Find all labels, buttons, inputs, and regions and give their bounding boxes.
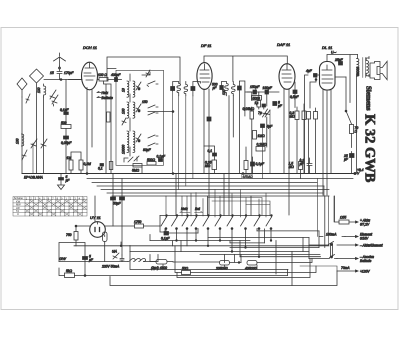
IFT2 cap left xyxy=(220,86,224,90)
capacitor C-ant 170pF xyxy=(57,66,62,80)
tube DCH11 xyxy=(82,62,98,90)
wire A2 branch xyxy=(32,143,34,173)
trimmer detector xyxy=(263,109,268,117)
trimmer arrows C-var xyxy=(50,90,58,104)
vertical x292 xyxy=(291,252,293,286)
antenna A1 (small) xyxy=(17,78,27,97)
resistor 1.2k bottom xyxy=(133,164,142,168)
svg-text:Siemens: Siemens xyxy=(365,86,373,111)
resistor v 0.15M xyxy=(250,111,254,119)
svg-text:0,1µF: 0,1µF xyxy=(157,155,166,159)
coil L1 100 xyxy=(44,84,46,97)
capacitor on DF11 cathode xyxy=(207,117,211,121)
bus y186 xyxy=(97,185,324,187)
svg-text:100: 100 xyxy=(16,138,20,144)
cap 0.1uF under switch xyxy=(164,232,169,236)
node dot xyxy=(315,79,317,81)
wire 120v xyxy=(300,266,337,271)
svg-text:150: 150 xyxy=(142,100,148,104)
resistor 1.5M right xyxy=(299,162,303,170)
wire top horizontal y79.5 xyxy=(44,79,82,81)
wire DF11 top link xyxy=(204,56,287,82)
IFT2 coil primary xyxy=(222,82,229,96)
coil L2 100 lower-left xyxy=(22,134,24,146)
vertical x172.5 xyxy=(172,241,174,246)
IFT1 coil primary xyxy=(173,82,181,96)
svg-text:0,1: 0,1 xyxy=(208,149,213,153)
capacitor 0.1uF left column black xyxy=(64,112,69,115)
wires resistor drops xyxy=(71,152,81,174)
svg-text:160µF: 160µF xyxy=(263,86,273,90)
coil pair L band xyxy=(127,131,135,153)
wires right of DAF11 xyxy=(294,82,296,108)
tube DAF11 xyxy=(279,64,295,90)
svg-text:UY 11: UY 11 xyxy=(90,215,101,220)
cap 25uF blob low xyxy=(350,154,355,158)
capacitor 400pF black xyxy=(115,78,118,82)
resistor on x111 lower xyxy=(109,162,113,170)
tube DL11 xyxy=(320,62,336,91)
svg-text:150µF: 150µF xyxy=(250,85,260,89)
vertical x257 xyxy=(256,229,258,231)
wire down xyxy=(113,200,122,255)
svg-text:1M: 1M xyxy=(67,156,72,160)
vertical x130 xyxy=(129,246,131,252)
wire bottom long xyxy=(59,268,288,276)
svg-text:5kΩ: 5kΩ xyxy=(66,269,72,273)
wire to coil box xyxy=(118,79,122,81)
table X marks row6 xyxy=(29,213,82,216)
resistor v mid xyxy=(244,161,248,170)
resistor on x111 xyxy=(107,112,111,122)
svg-text:¼A: ¼A xyxy=(112,250,118,254)
resistor 0.2M vertical xyxy=(79,160,83,170)
svg-text:DAF 11: DAF 11 xyxy=(277,42,290,47)
heater arrows Heiz/Batterie xyxy=(97,92,101,98)
svg-text:DCH 11: DCH 11 xyxy=(83,45,97,50)
svg-text:0,05µF: 0,05µF xyxy=(61,141,72,145)
transformer secondary xyxy=(366,58,369,76)
fan feed wires right xyxy=(208,198,270,216)
wire primary ends xyxy=(357,55,358,174)
svg-text:1750: 1750 xyxy=(134,220,142,224)
pot 4300 xyxy=(150,255,173,265)
svg-text:6⁄7,2V: 6⁄7,2V xyxy=(360,223,370,227)
wire xyxy=(300,159,302,179)
switch S1a beside A1 xyxy=(26,94,30,103)
resistor 1750 h xyxy=(135,224,144,228)
table band switch xyxy=(13,197,87,217)
wire junction verticals xyxy=(104,81,112,174)
svg-text:100mA: 100mA xyxy=(326,233,337,237)
speaker magnet outline xyxy=(370,62,380,80)
node dot xyxy=(60,79,62,81)
wire bottom second xyxy=(110,270,337,286)
wire grid to tube xyxy=(69,79,82,81)
resistor v right pair a xyxy=(295,111,299,120)
coil pair M band xyxy=(127,102,135,118)
wires mid detector xyxy=(246,147,253,174)
cap blob 160 xyxy=(265,90,269,94)
capacitor 0.05uF xyxy=(64,136,69,139)
pot 2 xyxy=(173,255,241,266)
svg-text:15: 15 xyxy=(50,71,54,75)
wire mains xyxy=(59,261,158,263)
wire xyxy=(351,158,353,174)
wires box internals xyxy=(130,72,150,174)
svg-text:500Ω: 500Ω xyxy=(147,158,156,162)
wire trimmer drop xyxy=(53,104,55,106)
IFT1 cap left xyxy=(171,87,175,91)
bus y196 xyxy=(112,195,329,197)
resistor 500 ohm xyxy=(147,162,156,166)
switch top dots on rail xyxy=(166,215,273,217)
terminal -akku element xyxy=(337,244,358,246)
capacitor 0.1uF right of box xyxy=(159,159,163,162)
trimmer mid box xyxy=(122,118,126,125)
svg-text:0,1: 0,1 xyxy=(98,167,103,171)
upper feed verticals xyxy=(166,190,266,218)
cap 50uF twin xyxy=(113,174,122,197)
boxed label 5000 xyxy=(252,96,262,101)
wire coil drop xyxy=(43,97,45,173)
wire y254.5 xyxy=(200,254,320,256)
cap blob xyxy=(253,90,257,94)
pot 3 xyxy=(241,255,312,266)
svg-text:0⁄15V: 0⁄15V xyxy=(360,237,369,241)
wire y256.7 xyxy=(240,256,321,258)
svg-text:80µF: 80µF xyxy=(143,148,152,152)
bus y182.5 xyxy=(92,182,317,184)
svg-text:K 32 GWB: K 32 GWB xyxy=(362,114,378,183)
vertical x158 pot feed xyxy=(157,255,159,262)
vertical x264.5 xyxy=(264,229,266,243)
junction dots bus xyxy=(86,173,88,175)
svg-text:5MΩ: 5MΩ xyxy=(132,169,140,173)
vertical x319 xyxy=(318,231,320,248)
switch blades band M xyxy=(136,104,158,115)
switch blades row xyxy=(161,216,272,227)
svg-text:+120V: +120V xyxy=(360,270,370,274)
capacitor 0.1uF left of box bottom xyxy=(100,164,104,167)
switch drop wires xyxy=(166,229,271,257)
svg-text:50000: 50000 xyxy=(356,67,360,76)
svg-text:7µ: 7µ xyxy=(258,111,262,115)
wire detector h xyxy=(247,91,279,93)
svg-text:70mA: 70mA xyxy=(341,266,350,270)
svg-text:Heiz: Heiz xyxy=(102,91,109,95)
wires xyxy=(309,108,316,174)
wires xyxy=(297,104,304,174)
fuse diagonal xyxy=(113,253,119,259)
IFT2 coil secondary xyxy=(232,82,236,96)
resistor v left xyxy=(212,160,217,170)
svg-text:100: 100 xyxy=(122,108,126,114)
vertical x165 xyxy=(164,229,166,234)
svg-text:750: 750 xyxy=(66,233,72,237)
svg-text:U∼: U∼ xyxy=(331,51,336,55)
svg-text:10: 10 xyxy=(122,88,126,92)
bus y193 xyxy=(107,192,323,194)
wire UY11 anode riser xyxy=(94,196,96,222)
wire detector mids xyxy=(263,110,271,179)
wire osc feedback xyxy=(148,111,173,113)
IFT1 cap right xyxy=(191,87,195,91)
svg-text:6/5MΩ: 6/5MΩ xyxy=(243,175,253,179)
svg-text:100: 100 xyxy=(37,87,41,93)
wire y245.8 xyxy=(74,245,329,247)
wire y269.5 xyxy=(130,252,288,270)
switch near output xyxy=(346,77,352,124)
boxed label 0.5M on bus xyxy=(242,175,253,180)
svg-text:40⁄9060: 40⁄9060 xyxy=(245,267,257,271)
vertical x240 xyxy=(239,241,241,257)
resistor 5k h xyxy=(65,273,75,278)
wire y251.5 xyxy=(130,251,309,253)
wire xyxy=(98,79,116,81)
vertical x276 xyxy=(275,241,277,275)
wire element xyxy=(319,236,345,238)
wire y230.9 xyxy=(257,230,319,232)
junction +9.4V xyxy=(354,172,356,174)
antenna A2 (large) xyxy=(30,69,44,92)
svg-text:20⁄8040: 20⁄8040 xyxy=(215,267,228,271)
svg-text:100: 100 xyxy=(222,89,226,95)
wire UY11 xyxy=(59,226,90,276)
output transformer primary xyxy=(357,59,359,77)
ground symbol xyxy=(58,180,65,190)
switch row bottom of box xyxy=(124,156,139,162)
resistor v 0.2M xyxy=(257,101,261,108)
tube UY11 rectifier xyxy=(90,196,106,237)
svg-text:U: U xyxy=(17,212,19,216)
wires xyxy=(204,146,215,174)
terminal +120V xyxy=(337,270,358,272)
trimmer 25pF xyxy=(265,110,270,117)
vertical x121 xyxy=(120,242,122,246)
svg-text:MΩ: MΩ xyxy=(290,114,296,118)
svg-text:170pF: 170pF xyxy=(64,71,74,75)
resistor 0.2M horiz xyxy=(256,147,265,152)
rail risers xyxy=(160,174,251,233)
wire top bus y57 xyxy=(107,57,180,84)
svg-text:4µF: 4µF xyxy=(306,69,313,73)
svg-text:50µF: 50µF xyxy=(113,202,122,206)
svg-text:1MΩ: 1MΩ xyxy=(258,134,266,138)
svg-text:220V 50mA: 220V 50mA xyxy=(101,265,120,269)
bus y178.5 xyxy=(87,178,353,180)
wire 50r line xyxy=(175,246,316,273)
svg-text:MΩ: MΩ xyxy=(205,164,211,168)
cap small xyxy=(262,104,266,107)
wire y233 xyxy=(165,232,198,234)
wire bat sw xyxy=(309,245,337,259)
main bus y173.5 xyxy=(22,173,355,175)
svg-text:0,1µF: 0,1µF xyxy=(60,108,69,112)
cap 0.1 xyxy=(213,153,217,156)
svg-text:0,2MΩ: 0,2MΩ xyxy=(257,143,267,147)
transformer core lines xyxy=(363,58,366,78)
resistor v right pair b xyxy=(302,111,306,120)
svg-text:– Akku⁄Element: – Akku⁄Element xyxy=(359,244,384,248)
wire y242.9 xyxy=(230,242,265,244)
box band-switch enclosure xyxy=(116,70,164,165)
resistor 500 horizontal xyxy=(61,125,71,129)
wire left col verticals xyxy=(65,80,67,174)
trimmer in box top xyxy=(146,70,150,77)
svg-text:50Ω: 50Ω xyxy=(182,267,189,271)
table X marks row3 xyxy=(25,203,82,206)
speaker cone xyxy=(380,61,387,79)
svg-text:100 Ω: 100 Ω xyxy=(98,73,107,77)
vertical x198 xyxy=(197,229,199,234)
cap 0.1uF mid xyxy=(251,162,255,166)
mains choke coil xyxy=(128,259,146,262)
wire grid DL11 xyxy=(305,75,320,174)
svg-text:EP+DB.NNA: EP+DB.NNA xyxy=(24,176,44,180)
wire xyxy=(351,134,353,154)
switch blades band L xyxy=(136,134,158,146)
cap blob 25uF top xyxy=(339,62,343,66)
svg-text:DF 11: DF 11 xyxy=(201,43,212,48)
right verticals xyxy=(318,179,335,246)
svg-text:0,1µF: 0,1µF xyxy=(256,162,265,166)
cap blob right small xyxy=(273,102,277,106)
trimmer C2 xyxy=(31,139,37,148)
wire antenna stems xyxy=(22,92,37,173)
wire y237.5 xyxy=(208,237,309,239)
wires IFT bottoms xyxy=(173,91,193,190)
wire tube legs down xyxy=(87,89,92,174)
svg-text:0,1µF: 0,1µF xyxy=(161,237,170,241)
junction dots net xyxy=(84,232,272,276)
resistor 70 v xyxy=(350,125,354,134)
cap 0.1uF right xyxy=(307,158,312,174)
resistor 100 ohm horizontal xyxy=(99,78,108,82)
wire y247.5 xyxy=(230,247,319,249)
resistor 1M vertical xyxy=(69,160,73,170)
switch blades band K xyxy=(136,81,158,90)
table X marks row2 xyxy=(29,200,86,203)
switch contact dots xyxy=(165,228,272,230)
wire DAF11 legs xyxy=(284,89,289,215)
wire screen xyxy=(310,77,316,108)
svg-text:1µ: 1µ xyxy=(255,101,259,105)
wire y277.5 xyxy=(177,259,310,278)
switch rail xyxy=(160,215,270,217)
svg-text:DL 11: DL 11 xyxy=(322,45,332,50)
svg-text:0,15MΩ: 0,15MΩ xyxy=(243,107,255,111)
label underlines xyxy=(180,210,203,213)
cap 5uF blob xyxy=(83,257,88,260)
wire secondary xyxy=(368,57,370,77)
vertical x324.8 xyxy=(324,196,326,248)
vertical x309 xyxy=(308,238,310,259)
resistor 750 v xyxy=(74,232,78,241)
tube DF11 xyxy=(197,63,212,90)
resistor 50 h xyxy=(182,271,191,275)
wire IFT1 right lead xyxy=(193,82,201,96)
ground cap 5uF xyxy=(60,174,62,178)
cap 4uF blob xyxy=(314,74,318,78)
table X marks row4 xyxy=(29,206,86,209)
UY11 ballast box xyxy=(103,232,108,242)
vertical x150 xyxy=(149,235,151,241)
svg-text:Batterie: Batterie xyxy=(360,259,372,263)
wire DL11 legs xyxy=(323,77,346,195)
bus y189.5 xyxy=(101,189,329,191)
wire y240.5 xyxy=(150,240,250,242)
cap 0.5uF right xyxy=(293,90,297,94)
switch S1b xyxy=(22,150,27,160)
svg-text:10000: 10000 xyxy=(122,145,126,154)
IFT2 cap right xyxy=(238,86,242,90)
terminal anoden batterie xyxy=(337,258,358,260)
wire DF11 legs xyxy=(204,89,209,215)
table row labels xyxy=(14,196,85,216)
cap blob mid xyxy=(261,124,265,128)
resistor 1M v xyxy=(253,131,257,140)
trimmer C3 xyxy=(41,139,47,148)
vertical x230 xyxy=(229,241,231,243)
wire DL11 top xyxy=(327,55,358,103)
terminal element xyxy=(345,236,358,238)
small cap xyxy=(120,255,124,262)
wires IFT2 xyxy=(229,81,251,215)
svg-text:Ω55: Ω55 xyxy=(340,216,346,220)
IFT1 coil secondary xyxy=(184,82,188,96)
wire heater chain xyxy=(105,225,160,227)
wire akku xyxy=(335,196,340,222)
mast/earth arrow top xyxy=(54,53,66,66)
vertical x303 xyxy=(302,238,304,252)
coil pair K band xyxy=(127,81,135,97)
vertical x181 xyxy=(180,241,182,252)
wires detector verticals xyxy=(252,92,267,174)
table X marks row5 xyxy=(25,209,78,212)
resistor 0.55 h xyxy=(339,220,349,224)
battery switch xyxy=(329,242,335,258)
svg-text:MΩ: MΩ xyxy=(289,165,295,169)
resistors pair right top xyxy=(307,112,311,120)
terminal akku xyxy=(349,221,358,223)
